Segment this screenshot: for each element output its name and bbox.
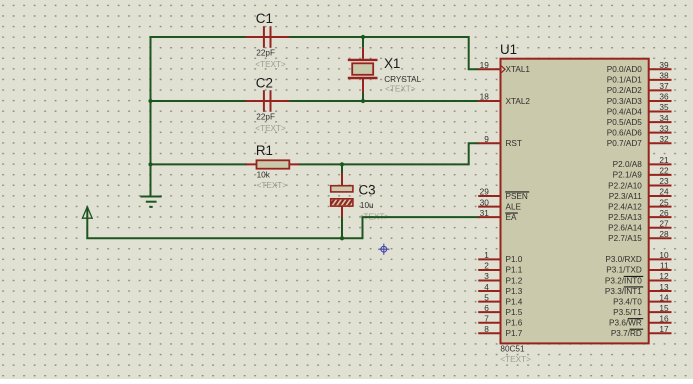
svg-text:27: 27 [659, 218, 669, 228]
svg-text:29: 29 [480, 187, 490, 197]
svg-text:19: 19 [480, 60, 490, 70]
svg-text:CRYSTAL: CRYSTAL [384, 75, 421, 84]
svg-text:P3.4/T0: P3.4/T0 [613, 297, 642, 306]
svg-text:ALE: ALE [506, 202, 522, 211]
svg-text:EA: EA [506, 213, 517, 222]
svg-text:C2: C2 [256, 75, 273, 90]
svg-text:P0.4/AD4: P0.4/AD4 [607, 107, 642, 116]
svg-text:80C51: 80C51 [500, 345, 525, 354]
svg-text:22: 22 [659, 166, 669, 176]
svg-text:<TEXT>: <TEXT> [500, 355, 531, 364]
svg-text:U1: U1 [500, 42, 517, 57]
svg-text:C3: C3 [359, 182, 376, 197]
svg-text:8: 8 [484, 324, 489, 334]
svg-text:P3.0/RXD: P3.0/RXD [605, 255, 641, 264]
svg-text:24: 24 [659, 187, 669, 197]
svg-text:22pF: 22pF [256, 49, 275, 58]
svg-text:26: 26 [659, 208, 669, 218]
svg-text:P1.1: P1.1 [506, 266, 523, 275]
svg-text:23: 23 [659, 176, 669, 186]
svg-text:17: 17 [659, 324, 669, 334]
svg-text:6: 6 [484, 303, 489, 313]
svg-text:P0.3/AD3: P0.3/AD3 [607, 97, 642, 106]
svg-text:37: 37 [659, 81, 669, 91]
svg-text:P2.0/A8: P2.0/A8 [613, 160, 643, 169]
svg-text:<TEXT>: <TEXT> [255, 60, 286, 69]
svg-text:P2.4/A12: P2.4/A12 [608, 202, 642, 211]
svg-text:3: 3 [484, 271, 489, 281]
svg-text:P0.0/AD0: P0.0/AD0 [607, 65, 642, 74]
svg-text:C1: C1 [256, 11, 273, 26]
svg-text:P2.1/A9: P2.1/A9 [613, 171, 643, 180]
svg-text:X1: X1 [384, 56, 400, 71]
svg-text:P3.1/TXD: P3.1/TXD [606, 266, 642, 275]
svg-text:38: 38 [659, 71, 669, 81]
svg-text:13: 13 [659, 282, 669, 292]
svg-text:P1.7: P1.7 [506, 329, 523, 338]
svg-text:R1: R1 [256, 143, 273, 158]
svg-text:P0.2/AD2: P0.2/AD2 [607, 86, 642, 95]
svg-text:XTAL2: XTAL2 [506, 97, 531, 106]
svg-text:PSEN: PSEN [506, 192, 528, 201]
svg-text:15: 15 [659, 303, 669, 313]
svg-text:P1.2: P1.2 [506, 276, 523, 285]
svg-text:9: 9 [484, 134, 489, 144]
svg-text:10u: 10u [360, 201, 374, 210]
svg-text:34: 34 [659, 113, 669, 123]
svg-text:<TEXT>: <TEXT> [257, 181, 288, 190]
svg-text:XTAL1: XTAL1 [506, 65, 531, 74]
svg-text:10: 10 [659, 250, 669, 260]
svg-text:18: 18 [480, 92, 490, 102]
svg-text:30: 30 [480, 197, 490, 207]
svg-text:P3.2/INT0: P3.2/INT0 [605, 276, 642, 285]
svg-text:P0.7/AD7: P0.7/AD7 [607, 139, 642, 148]
svg-text:1: 1 [484, 250, 489, 260]
svg-text:31: 31 [480, 208, 490, 218]
svg-text:P3.3/INT1: P3.3/INT1 [605, 287, 642, 296]
svg-text:P3.7/RD: P3.7/RD [611, 329, 642, 338]
svg-text:<TEXT>: <TEXT> [255, 124, 286, 133]
svg-text:P1.4: P1.4 [506, 297, 523, 306]
svg-text:P0.5/AD5: P0.5/AD5 [607, 118, 642, 127]
svg-text:12: 12 [659, 271, 669, 281]
svg-text:4: 4 [484, 282, 489, 292]
svg-text:11: 11 [660, 261, 669, 271]
svg-text:RST: RST [506, 139, 522, 148]
svg-text:P1.5: P1.5 [506, 308, 523, 317]
svg-text:P3.5/T1: P3.5/T1 [613, 308, 642, 317]
svg-text:33: 33 [659, 123, 669, 133]
svg-text:14: 14 [659, 292, 669, 302]
svg-text:7: 7 [484, 313, 489, 323]
svg-text:39: 39 [659, 60, 669, 70]
svg-text:32: 32 [659, 134, 669, 144]
svg-text:35: 35 [659, 102, 669, 112]
svg-text:P3.6/WR: P3.6/WR [609, 319, 642, 328]
svg-text:16: 16 [659, 313, 669, 323]
svg-text:28: 28 [659, 229, 669, 239]
svg-text:5: 5 [484, 292, 489, 302]
svg-text:<TEXT>: <TEXT> [385, 84, 416, 93]
svg-text:21: 21 [659, 155, 669, 165]
svg-text:36: 36 [659, 92, 669, 102]
svg-text:P2.2/A10: P2.2/A10 [608, 181, 642, 190]
svg-text:P1.0: P1.0 [506, 255, 523, 264]
svg-text:P0.1/AD1: P0.1/AD1 [607, 76, 642, 85]
svg-text:P2.6/A14: P2.6/A14 [608, 224, 642, 233]
svg-text:P2.3/A11: P2.3/A11 [609, 192, 643, 201]
svg-text:25: 25 [659, 197, 669, 207]
svg-text:P1.6: P1.6 [506, 319, 523, 328]
svg-text:P0.6/AD6: P0.6/AD6 [607, 128, 642, 137]
svg-text:2: 2 [484, 261, 489, 271]
svg-text:P1.3: P1.3 [506, 287, 523, 296]
svg-text:P2.5/A13: P2.5/A13 [608, 213, 642, 222]
svg-text:10k: 10k [257, 171, 271, 180]
svg-text:P2.7/A15: P2.7/A15 [608, 234, 642, 243]
svg-text:22pF: 22pF [256, 113, 275, 122]
